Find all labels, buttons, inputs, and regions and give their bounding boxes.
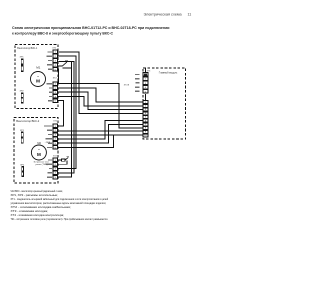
svg-text:Вентилятор ВКС-1: Вентилятор ВКС-1 [17,46,37,50]
wire: fan1 XT1-2 down to fan2 XT2-3 [58,56,76,168]
label XT2 (fan 2) [53,155,58,157]
svg-text:ХТ2 - клеммная колодка кабельн: ХТ2 - клеммная колодка кабельная; [11,205,72,209]
wire: fan1 XT2-2 to controller XT4-1 [58,88,143,102]
svg-text:Вентилятор ВКС-2: Вентилятор ВКС-2 [16,119,40,123]
svg-text:ТК1 - встроенное тепловое реле: ТК1 - встроенное тепловое реле (термокон… [11,217,109,221]
svg-text:ХР1, ХР2 - разъёмы штепсельные: ХР1, ХР2 - разъёмы штепсельные; [11,193,59,197]
thermal contact TK1 (fan 2): thermal element, blade, stubs [58,156,70,164]
svg-text:ХТ1: ХТ1 [52,48,57,50]
wire: fan1 XT2-3 to controller XT4-3 [58,92,143,110]
terminal name labels left of XT1 fan2 [44,125,52,148]
connector XP1 (fan 2) [20,130,25,144]
thermal contact TK (fan 1): stub, blade, loop [58,61,72,68]
terminal strip XT2 fan2 [53,158,58,179]
terminal name labels left of controller upper strip [135,74,140,92]
motor M2 [31,145,46,160]
svg-text:ХТ4 - клеммная колодка контрол: ХТ4 - клеммная колодка контроллера; [11,213,65,217]
terminal name labels left of XT1 fan1 [46,51,52,70]
wire: fan2 XT1-3 to controller XT4-10 [58,134,143,136]
label XT1 (fan 2) [53,120,58,122]
svg-text:ХТ1: ХТ1 [53,120,58,122]
link between controller strips [144,94,146,101]
svg-text:ХТ3 - клеммная колодка;: ХТ3 - клеммная колодка; [11,209,49,213]
svg-text:ХР1: ХР1 [20,130,25,132]
footnote legend block [11,189,109,221]
svg-text:Электрическая схема: Электрическая схема [144,13,183,17]
fan unit 1 enclosure (dashed) [15,44,58,108]
terminal strip XT4 controller [143,101,148,137]
wire: fan1 TK bottom loop down to fan2 XT2-5 [58,68,72,177]
wire: fan1 XT2-5 down to fan2 XT1-1 [58,101,64,126]
motor M2 reference label [37,141,41,145]
wire: controller XT4-7 to fan2 XT1-5 [58,124,143,143]
terminal name labels left of XT2 fan1 [46,83,52,101]
fan 2 name label [16,119,40,123]
svg-text:ХТ2: ХТ2 [53,78,58,80]
label XT2 (fan 1) [53,78,58,80]
svg-text:ХР1: ХР1 [20,56,25,58]
connector XP1 (fan 1) [20,56,25,71]
fan 1 name label [17,46,37,50]
svg-text:ХТ1 - соединитель штыревой каб: ХТ1 - соединитель штыревой кабельный для… [11,197,109,201]
svg-text:ЧАЗ ВОС - вентилятор крышный р: ЧАЗ ВОС - вентилятор крышный радиальный … [11,189,64,193]
terminal strip XT2 fan1 [53,82,58,103]
motor M1 reference label [36,65,40,69]
wire: fan1 TK top line down to fan2 XT2-4 [58,62,74,173]
svg-text:11: 11 [188,12,192,16]
wire: fan1 XT2-4 to controller XT4-2 [58,96,143,106]
terminal name labels left of XT2 fan2 [45,159,52,178]
wire: fan2 XT1-2 to controller XT4-9 [58,130,143,132]
label XT1 (fan 1) [52,48,57,50]
fan unit 2 enclosure (dashed) [14,117,58,183]
page header: running title and page number [144,12,192,16]
caption line 2 [12,32,114,36]
caption line 1 [12,26,170,30]
label XT3 + stub (controller upper strip) [145,68,151,72]
built-in thermal relay note (fan 2) [34,162,50,166]
voltage note near M2 [45,142,51,144]
svg-text:ХР2: ХР2 [20,90,25,92]
label XT4 (floating, on wire) [124,84,130,86]
terminal strip XT1 fan1 [53,50,58,72]
link XT1-5 down to XT2-1 (fan 1) [58,69,59,84]
terminal strip XT1 fan2 [53,124,58,149]
svg-text:к контроллеру ВВС-8 и энергосб: к контроллеру ВВС-8 и энергосберегающему… [12,32,114,36]
svg-text:Главный модуль: Главный модуль [159,71,178,75]
svg-text:M: M [37,152,41,157]
controller name label [159,71,178,75]
motor M1 [31,72,46,87]
wire: fan1 XT1-1 to controller XT4-4 [58,52,143,113]
svg-text:управления вентилятором, распо: управления вентилятором, расположенные в… [11,201,107,205]
wire: controller XT4-6 to fan2 XT1-4 [58,121,143,139]
svg-text:ХТ4 8: ХТ4 8 [124,84,130,86]
svg-text:M: M [36,79,40,84]
svg-text:М2: М2 [37,141,41,145]
wire: fan1 XT2-1 to controller XT4-8 [58,84,143,129]
svg-text:ХТ2: ХТ2 [53,155,58,157]
svg-text:Схема электрическая принципиал: Схема электрическая принципиальная ВНС-0… [12,26,170,30]
svg-text:М1: М1 [36,65,40,69]
svg-text:ХР2: ХР2 [20,164,25,166]
controller enclosure (dashed) [143,68,185,139]
wire: branch down to fan2 XT1-6 [58,135,114,148]
connector XP2 (fan 2) [20,164,25,177]
terminal strip XT3 controller [143,73,148,94]
connector XP2 (fan 1) [20,90,25,103]
